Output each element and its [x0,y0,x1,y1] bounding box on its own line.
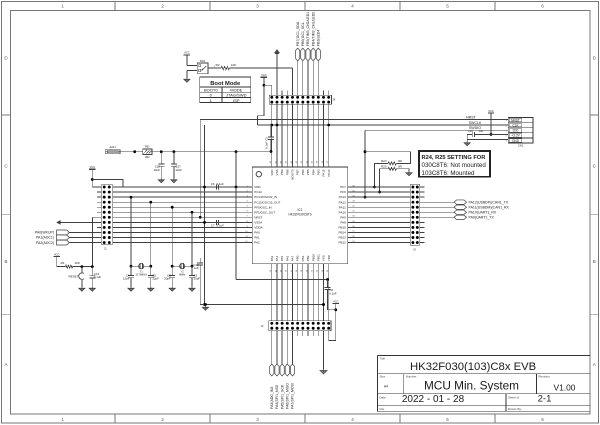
wire ground rail [200,303,325,306]
svg-text:PB9: PB9 [280,169,284,175]
svg-text:A4: A4 [384,385,388,389]
capacitor C13 0.1uF (reset) [89,267,101,287]
svg-text:PB4: PB4 [311,169,315,175]
svg-text:10K: 10K [231,63,236,67]
svg-text:PB7: PB7 [296,169,300,175]
connector CN1 (SWD) [506,118,533,148]
capacitor C3 20pF [189,266,200,287]
wire col1 to top symbol [276,52,278,95]
svg-text:0.1uF C5: 0.1uF C5 [265,137,269,149]
svg-text:PA0: PA0 [254,231,260,235]
boot mode table [200,77,251,103]
net flag PA12(USBDP)(CAN1_TX) [420,200,509,204]
svg-text:PB1: PB1 [301,255,305,261]
svg-text:20pF: 20pF [164,277,171,281]
wire VSS col10 junction [322,303,325,306]
svg-text:5: 5 [446,417,449,422]
svg-text:PA6(SPI1_MISO: PA6(SPI1_MISO [286,383,290,409]
svg-text:B: B [4,259,7,264]
svg-text:CLK: CLK [512,124,519,128]
svg-text:JTAG/SWD: JTAG/SWD [226,93,246,98]
svg-text:PF0/OSC_IN: PF0/OSC_IN [254,205,272,209]
wire VCC drop to VDD rail [257,85,264,125]
power VCC (CN1) [488,109,494,113]
capacitor C10 1uF [467,129,483,137]
svg-text:1: 1 [61,417,64,422]
svg-text:PB3(LED4: PB3(LED4 [317,30,321,47]
svg-text:Size: Size [380,375,386,379]
stub above J4 col10 [323,91,325,96]
svg-text:VCC: VCC [261,73,267,77]
ground (reset cap) [89,287,95,291]
svg-text:10uF: 10uF [153,168,160,172]
wire NRST drop to MCU pin7 row [199,120,202,219]
ground (reset switch) [79,287,85,291]
MCU IC1 HK32F030C8T6 [245,160,355,272]
node NRST input arrow [57,220,102,224]
wire VCC drop to VDD row [235,152,238,189]
svg-text:R24: R24 [381,159,387,163]
svg-text:PA13: PA13 [339,195,346,199]
svg-text:DIO: DIO [513,129,519,133]
svg-text:PF1/OSC_OUT: PF1/OSC_OUT [254,210,275,214]
ground (J2) [320,369,327,374]
svg-text:GND: GND [512,139,520,143]
crystal Y1 32.768KHz [131,263,151,276]
svg-text:MCU Min. System: MCU Min. System [424,379,519,393]
svg-text:PA7: PA7 [291,256,295,262]
wire R25 to ground [396,169,409,172]
capacitor C2 20pF [164,266,175,287]
wire J2 col10 to ground [323,331,325,369]
svg-text:PB4(TIM3_CH1/LED0: PB4(TIM3_CH1/LED0 [311,12,315,46]
stub above J4 col11 [328,91,330,96]
svg-text:103C8T6: Mounted: 103C8T6: Mounted [422,170,476,177]
svg-text:3: 3 [256,4,259,9]
svg-text:PA6: PA6 [285,256,289,262]
wires J4 to MCU top pins [272,104,329,167]
svg-text:PA14: PA14 [327,169,331,176]
switch SW1 (boot mode) [197,60,208,74]
power symbol (col1 top) [275,50,280,54]
resistor R1 10K [61,261,80,268]
svg-text:PC13: PC13 [254,190,262,194]
wire VCC to R1 [57,257,66,267]
svg-text:R25: R25 [381,164,387,168]
ground (C28) [158,179,164,183]
J1 left pin stubs [97,192,101,227]
svg-text:AAF1: AAF1 [109,146,116,149]
net flag PB7(I2C1_SDA) [296,21,300,95]
svg-text:B: B [593,259,596,264]
wire SW1 to R2 [208,66,221,68]
svg-text:12pF: 12pF [123,277,130,281]
net flag PB3(LED4) [316,30,320,96]
wire SWDIO vertical to PA13 row [364,130,367,198]
svg-text:1uF: 1uF [478,129,483,133]
svg-text:Date: Date [380,396,387,400]
power VCC (reset) [54,252,60,256]
header J1 (2x12 left) [101,185,112,251]
header J4 (2x12 top) [269,95,336,104]
ground (C3) [189,287,195,291]
wires J1 to MCU left pins [113,187,253,243]
stub above J4 col2 [281,91,283,96]
net flag PB5(TIM3_CH2/LED1) [306,12,310,95]
net flag PA11(USBDM)(CAN1_RX) [420,205,510,209]
svg-text:PA4: PA4 [275,256,279,262]
note box R24 R25 setting [419,151,490,177]
svg-text:PA3(ADC_IN3: PA3(ADC_IN3 [270,387,274,409]
resistor R24 0R [381,159,403,165]
capacitor C5b 12pF [148,266,159,287]
svg-text:PA0(WKUP): PA0(WKUP) [35,231,54,235]
svg-text:PB6(I2C1_SCL: PB6(I2C1_SCL [301,22,305,46]
net flag PA6(SPI1_MISO) [285,331,289,409]
svg-text:Sheet of: Sheet of [508,396,519,400]
wire OSC col right [191,211,194,268]
capacitor C5 0.1uF (J4 rail) [265,125,275,153]
capacitor C28 10uF [153,152,164,179]
svg-text:PB7(I2C1_SDA: PB7(I2C1_SDA [296,21,300,46]
header J2 (2x12 bottom) [261,321,331,331]
svg-text:PA3: PA3 [270,256,274,262]
wire vertical drop B [199,270,201,305]
svg-text:PA9: PA9 [340,215,346,219]
svg-text:PA8: PA8 [340,220,346,224]
svg-text:PB5: PB5 [306,169,310,175]
wire BOOT0 net R2 to J4 [229,68,292,95]
wire VCC to J4 col0 [263,77,272,95]
svg-text:BOOT0: BOOT0 [291,169,295,180]
svg-text:VSS: VSS [275,169,279,175]
resistor R2 10K [216,63,237,70]
svg-text:32.768KHz: 32.768KHz [136,275,148,277]
ground (C2) [169,287,175,291]
svg-text:VSSA: VSSA [254,220,262,224]
stubs below J2 [298,331,319,336]
svg-text:2-1: 2-1 [538,393,552,404]
svg-text:RESET: RESET [68,275,78,279]
svg-text:+3.3V: +3.3V [511,134,520,138]
wire R25 to PF6 row [378,169,388,194]
svg-text:PB6: PB6 [301,169,305,175]
title block [378,355,590,411]
svg-text:6: 6 [541,417,544,422]
svg-text:PA15: PA15 [322,169,326,176]
ferrite bead FB1 [143,146,152,159]
svg-text:PA4(SPI1_NSS: PA4(SPI1_NSS [275,384,279,409]
ground (C27) [171,179,177,183]
net flag PA10(UART1_RX) [420,210,497,214]
svg-text:0.1uF: 0.1uF [217,224,225,228]
wires MCU right pins to J3 [348,187,411,243]
net NRST wire [200,115,508,119]
svg-text:SW1: SW1 [200,60,206,63]
svg-text:PA10(UART1_RX: PA10(UART1_RX [469,210,497,214]
ground (C4) [128,287,134,291]
svg-text:SWCLK: SWCLK [469,121,482,125]
svg-text:C6: C6 [211,182,215,186]
svg-text:PB15: PB15 [338,226,346,230]
svg-text:2: 2 [161,417,164,422]
wire SWDIO branch to R24 [365,152,411,164]
capacitor C6 0.1uF (VDD row) [211,182,224,189]
svg-text:PA11(USBDM)(CAN1_RX: PA11(USBDM)(CAN1_RX [469,205,510,209]
svg-text:PA12: PA12 [339,200,346,204]
wire VCC to SW1 [187,55,197,66]
svg-text:Number: Number [406,375,417,379]
resistor R25 0R [381,164,403,170]
stub above J4 col3 [286,91,288,96]
svg-text:4: 4 [351,4,354,9]
svg-text:0.1uF: 0.1uF [217,182,225,186]
svg-text:PB5(TIM3_CH2/LED1: PB5(TIM3_CH2/LED1 [306,12,310,46]
svg-text:R24, R25 SETTING FOR: R24, R25 SETTING FOR [422,155,486,161]
capacitor C4 12pF [123,266,134,287]
wire VDD feed below MCU [236,187,329,281]
svg-text:10K: 10K [75,261,80,265]
svg-text:PA5: PA5 [280,256,284,262]
svg-text:PA1(ADC1): PA1(ADC1) [36,236,54,240]
svg-text:6: 6 [541,4,544,9]
svg-text:PA2: PA2 [254,241,260,245]
svg-text:PA5(SPI1_SCK: PA5(SPI1_SCK [280,384,284,409]
svg-text:PB11: PB11 [316,254,320,261]
svg-text:VDD: VDD [327,254,331,261]
svg-text:2022 - 01 - 28: 2022 - 01 - 28 [402,394,465,405]
svg-text:VCC: VCC [488,109,494,113]
svg-text:C7: C7 [211,224,215,228]
net SWDIO wire [365,126,508,130]
svg-text:PA11: PA11 [339,205,346,209]
svg-text:0.1uF: 0.1uF [94,275,102,279]
svg-text:IC1: IC1 [298,208,303,212]
svg-text:PA10: PA10 [339,210,346,214]
svg-text:PB0: PB0 [296,255,300,261]
svg-text:PA2(ADC2): PA2(ADC2) [36,241,54,245]
capacitor C8 0.1uF [325,280,337,298]
net flag PA3(ADC_IN3) [270,331,274,409]
net flag PA1(ADC1) [36,235,101,240]
svg-text:5: 5 [446,4,449,9]
capacitor C16 1uF (rail) [193,258,203,270]
svg-text:FB1: FB1 [145,146,150,149]
svg-text:VDD: VDD [270,169,274,176]
net flag PA0(WKUP) [35,230,101,235]
wire VCC rail FB1 to MCU VDD [152,150,271,153]
wire VCC loop to J1 pin1 and VDD row [91,169,123,187]
svg-text:PB3: PB3 [316,169,320,175]
power VCC (boot switch) [184,51,190,55]
svg-text:PA7(SPI1_MOSI: PA7(SPI1_MOSI [291,383,295,409]
ground (boot switch) [184,78,190,82]
ground (rail) [203,306,209,310]
net flag PA4(SPI1_NSS) [275,331,279,409]
svg-text:4: 4 [351,417,354,422]
wire R24 to PF7 row [373,164,388,189]
svg-text:HK32F030(103)C8x EVB: HK32F030(103)C8x EVB [410,361,536,373]
wire OSC32 col left [130,196,133,268]
net flag PA5(SPI1_SCK) [280,331,284,409]
net flag PA7(SPI1_MOSI) [290,331,294,409]
wire SW1 to ground [187,71,197,79]
svg-text:1uF: 1uF [194,266,199,270]
wire OSC32 col right [149,201,152,268]
capacitor C27 10uF [171,152,182,179]
svg-text:PB12: PB12 [338,241,346,245]
svg-text:PA9(UART1_TX: PA9(UART1_TX [469,216,495,220]
net SWCLK wire [257,121,508,127]
wire NRST row to reset circuit [93,217,102,266]
ground (C5) [148,287,154,291]
svg-text:C10: C10 [468,129,474,133]
wire VCC to J2 col11 [328,298,338,341]
svg-text:V1.00: V1.00 [554,382,576,392]
net flag PB4(TIM3_CH1/LED0) [311,12,315,95]
wire AAF1 to FB1 [120,150,143,153]
svg-text:VCC: VCC [333,299,339,303]
wire R1 to NRST node [73,265,94,268]
ground (R25) [406,172,412,176]
svg-text:12pF: 12pF [152,277,159,281]
svg-text:FB2: FB2 [145,156,150,159]
ground (CN1) [464,142,470,146]
fuse AAF1 [105,146,120,154]
net flag PB6(I2C1_SCL) [301,22,305,95]
switch RESET [68,267,83,287]
svg-text:030C8T6: Not mounted: 030C8T6: Not mounted [422,162,487,169]
svg-text:VDDA: VDDA [254,226,262,230]
svg-text:0.1uF: 0.1uF [329,292,337,296]
svg-text:3: 3 [256,417,259,422]
power VCC (J2) [333,299,339,303]
svg-text:VCC: VCC [54,252,60,256]
svg-text:HK32F030C8T6: HK32F030C8T6 [288,213,311,217]
svg-text:PB2: PB2 [306,255,310,261]
wire vertical drop A [203,125,206,306]
svg-text:VSS: VSS [322,255,326,261]
svg-text:VCC: VCC [90,165,96,169]
svg-text:VDD: VDD [254,185,261,189]
wires MCU bottom pins to J2 [272,264,329,321]
wire OSC col left [171,206,174,268]
power VCC (J1) [89,165,95,169]
svg-text:PB14: PB14 [338,231,346,235]
capacitor C7 0.1uF (VSSA row) [211,220,224,228]
svg-text:2: 2 [161,4,164,9]
svg-text:PF7: PF7 [340,185,346,189]
svg-text:PA12(USBDP)(CAN1_TX: PA12(USBDP)(CAN1_TX [469,200,509,204]
net flag PA2(ADC2) [36,240,101,245]
svg-text:20pF: 20pF [194,277,201,281]
svg-text:VCC: VCC [184,51,190,55]
wire VCC to CN1 +3.3V [480,113,509,136]
svg-text:PF6: PF6 [340,190,346,194]
svg-text:Drawn By:: Drawn By: [508,407,522,411]
svg-text:NRST: NRST [254,215,262,219]
svg-text:Boot Mode: Boot Mode [210,81,241,87]
svg-text:R2: R2 [216,63,220,67]
svg-text:PC14/OSC32_IN: PC14/OSC32_IN [254,195,277,199]
svg-text:PC15/OSC32_OUT: PC15/OSC32_OUT [254,200,280,204]
svg-text:PA1: PA1 [254,236,260,240]
svg-text:10uF: 10uF [175,168,182,172]
svg-text:NRST: NRST [511,118,520,122]
svg-text:PB8: PB8 [285,169,289,175]
svg-text:1: 1 [61,4,64,9]
net flag PA9(UART1_TX) [420,215,495,219]
power VCC (J4 area) [261,73,267,77]
svg-text:Revision: Revision [538,375,550,379]
J3 right pin stubs [420,187,425,243]
svg-text:File: File [380,407,385,411]
svg-text:R1: R1 [61,261,65,265]
svg-text:PB13: PB13 [338,236,346,240]
svg-text:NRST: NRST [466,115,477,119]
crystal Y2 8MHz [172,263,192,276]
wire GND row CN1 [467,134,508,141]
svg-text:Title: Title [380,356,386,360]
svg-text:ISP: ISP [233,98,240,103]
svg-text:CN1: CN1 [518,144,524,148]
svg-text:8MHz: 8MHz [179,275,186,277]
header J3 (2x12 right) [410,184,420,251]
svg-text:PB10: PB10 [311,254,315,262]
